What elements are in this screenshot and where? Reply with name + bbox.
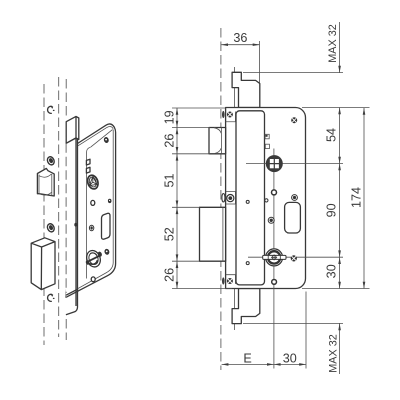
node square holes perspective — [86, 159, 90, 173]
dim chain left 19 26 51 52 26 — [162, 108, 232, 289]
node square hole upper — [265, 134, 269, 139]
node inner panel — [236, 111, 265, 285]
screw door bottom — [46, 223, 55, 233]
screw post mid right — [292, 195, 298, 201]
node slot perspective — [102, 213, 111, 239]
svg-text:E: E — [243, 352, 251, 366]
svg-text:174: 174 — [349, 187, 363, 208]
rivet lower — [246, 262, 249, 265]
svg-text:MAX 32: MAX 32 — [327, 334, 339, 372]
dim MAX 32 bottom — [243, 323, 343, 374]
wire panel notch bottom — [226, 275, 236, 284]
svg-text:26: 26 — [162, 268, 176, 282]
node small hole right — [108, 199, 112, 203]
screw faceplate middle — [227, 195, 234, 202]
wire follower centerline vertical — [273, 149, 275, 369]
dim MAX 32 top — [243, 22, 343, 73]
svg-text:36: 36 — [233, 31, 247, 45]
node forend strip — [66, 138, 78, 315]
node top tab — [232, 72, 260, 107]
svg-text:19: 19 — [162, 110, 176, 124]
screw cylinder near — [104, 248, 110, 255]
node curl bottom — [48, 294, 55, 301]
screw faceplate bottom — [227, 278, 233, 284]
screw faceplate top — [227, 112, 233, 118]
node deadbolt — [31, 238, 55, 290]
wire extension line 36 right — [259, 41, 261, 290]
svg-text:52: 52 — [162, 227, 176, 241]
wire door edge dashed line — [220, 28, 222, 370]
node forend bottom tab — [66, 289, 78, 297]
node circle hole — [272, 190, 277, 195]
wire follower centerline horizontal — [246, 163, 343, 165]
wire panel notch top — [226, 112, 236, 122]
dim 174 — [349, 108, 365, 289]
screw D profile top — [222, 111, 225, 118]
rivet forend — [74, 223, 77, 227]
node hole below cylinder — [272, 280, 277, 285]
svg-text:MAX 32: MAX 32 — [327, 24, 339, 62]
screw case top near — [103, 136, 109, 143]
node hole below cylinder perspective — [91, 277, 95, 282]
dim chain 54 90 30 — [302, 108, 370, 289]
screw door top — [46, 156, 55, 166]
node small hole — [265, 199, 268, 202]
node latch bolt — [37, 168, 54, 196]
node curl top — [48, 106, 55, 113]
wire panel notch middle — [226, 192, 236, 205]
wire cylinder centerline horizontal — [248, 256, 343, 258]
screw D profile bottom — [222, 277, 225, 284]
node lock case — [226, 108, 306, 289]
screw cylinder right — [291, 255, 297, 261]
node latch bolt side — [209, 128, 226, 154]
node follower square spindle — [266, 155, 283, 172]
node deadbolt side — [200, 207, 226, 261]
wire dashed door line 3 lower — [65, 319, 67, 340]
svg-text:30: 30 — [325, 264, 339, 278]
node follower perspective — [86, 174, 100, 190]
svg-text:26: 26 — [162, 134, 176, 148]
dim E 30 bottom — [222, 292, 306, 369]
screw D profile middle — [222, 194, 225, 202]
wire panel top edge — [91, 130, 113, 148]
dim 36 top — [221, 31, 259, 46]
node bottom tab — [232, 289, 260, 324]
node slot hole — [285, 202, 301, 233]
screw case top right — [291, 117, 297, 123]
wire near face inner edge — [66, 127, 113, 296]
rivet upper — [246, 200, 249, 203]
screw post perspective — [89, 225, 93, 231]
node case near face — [66, 124, 116, 297]
screw post mid left — [268, 217, 274, 223]
wire dashed door line 3 upper — [65, 79, 67, 116]
wire door line 3 dashed mid — [65, 143, 67, 293]
wire dashed door line 2 — [58, 77, 60, 337]
svg-text:51: 51 — [162, 173, 176, 187]
node square hole lower — [265, 144, 269, 148]
node circle hole perspective — [91, 200, 95, 205]
node forend top tab — [66, 116, 79, 143]
svg-text:30: 30 — [283, 352, 297, 366]
node cylinder — [263, 249, 286, 266]
wire thin forend line — [234, 67, 236, 330]
wire dashed door line 1 — [43, 84, 45, 345]
svg-text:54: 54 — [325, 128, 339, 142]
wire panel edge perspective — [87, 147, 91, 278]
svg-text:90: 90 — [325, 203, 339, 217]
node cylinder perspective — [84, 249, 102, 269]
